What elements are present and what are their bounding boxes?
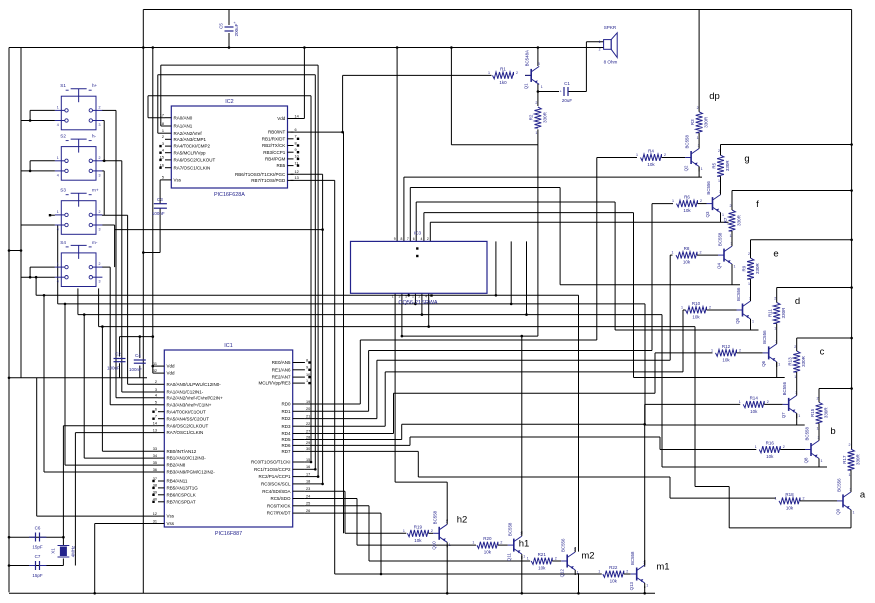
svg-text:2: 2 [427,237,429,241]
svg-text:b: b [830,426,835,437]
svg-text:4: 4 [162,149,164,153]
svg-text:15: 15 [306,458,310,462]
junction [521,335,524,338]
wire e segment line [615,329,758,331]
junction [29,119,32,122]
svg-text:RE0/AN5: RE0/AN5 [272,360,291,365]
svg-text:2: 2 [155,380,157,384]
svg-text:100uF: 100uF [107,366,120,371]
svg-text:RC1/T1OSI/CCP2: RC1/T1OSI/CCP2 [254,467,291,472]
svg-text:RC4/SDI/SDA: RC4/SDI/SDA [262,489,290,494]
wire RA7 drop [74,433,76,566]
svg-text:RB2/TX/CK: RB2/TX/CK [262,143,285,148]
wire S4p2 drop [109,267,111,405]
svg-text:RA5/MCLR/Vpp: RA5/MCLR/Vpp [174,150,207,155]
wire display anode riser [396,48,398,242]
wire f riser [559,188,561,285]
svg-text:15pF: 15pF [32,573,43,578]
wire RC2 ext [317,419,319,477]
junction [317,475,320,478]
wire d col drop [776,362,778,378]
svg-text:32: 32 [153,369,157,373]
wire RD3 h [385,371,683,373]
svg-text:2: 2 [767,400,769,404]
wire d base feed [655,352,713,354]
wire m1 base line [335,573,602,575]
wire IC2 Vdd lead [291,118,305,120]
wire C5 bottom lead [228,33,230,48]
wire b feed riser [659,437,661,450]
svg-text:BC556: BC556 [706,181,711,195]
svg-text:1: 1 [599,40,601,44]
svg-text:4: 4 [57,173,59,177]
wire RB0 lead [102,450,158,452]
svg-text:1k0: 1k0 [499,80,507,85]
svg-text:18: 18 [160,122,164,126]
wire a base feed [670,497,776,499]
svg-text:m+: m+ [92,188,99,193]
wire f col drop [731,264,733,285]
wire RA0(IC1) lead [128,383,158,385]
node a [860,490,866,501]
svg-text:S3: S3 [60,188,66,193]
wire RD7 riser [417,451,419,477]
svg-text:RD4: RD4 [281,431,290,436]
wire RC1 ext [314,411,316,469]
svg-text:R21: R21 [538,552,547,557]
transistor stage c (Q7 R13 R14) [739,338,806,418]
wire RD7 wire [305,450,418,452]
svg-text:3: 3 [99,173,101,177]
svg-text:1: 1 [577,571,579,575]
wire a hook [428,293,430,326]
svg-text:BC558: BC558 [718,232,723,246]
wire e riser [614,202,616,330]
svg-text:1: 1 [734,265,736,269]
svg-text:BC558: BC558 [805,427,810,441]
wire C1 to speaker [569,91,587,93]
svg-text:RB3/CCP1: RB3/CCP1 [263,150,286,155]
svg-text:RB7/T1OSI/PGD: RB7/T1OSI/PGD [251,178,286,183]
junction [20,249,23,252]
svg-text:10k: 10k [692,315,700,320]
wire b base feed [660,449,756,451]
svg-text:RA2/AN2/Vref-/CVref/C2IN+: RA2/AN2/Vref-/CVref/C2IN+ [167,395,224,400]
wire a jog down [728,487,730,528]
wire e hook h [416,201,615,203]
wire RD5 h [402,423,645,425]
wire C5 top lead [228,10,230,26]
junction [8,249,11,252]
svg-text:Vss: Vss [167,514,175,519]
svg-text:c: c [820,347,825,358]
svg-text:10k: 10k [766,454,774,459]
svg-text:20uF: 20uF [562,98,573,103]
wire S2 p2 wire [102,160,122,162]
svg-text:h2: h2 [457,515,468,526]
svg-text:5: 5 [405,295,407,299]
node b [830,426,835,437]
svg-text:19: 19 [306,400,310,404]
svg-text:8: 8 [401,237,403,241]
junction [510,303,513,306]
capacitor C1 20uF [559,81,572,103]
wire RC6 wire [305,505,369,507]
svg-text:BC558: BC558 [685,135,690,149]
wire a col drop [850,510,852,528]
wire RC4 wire [305,490,345,492]
capacitor C2 100uF [107,352,126,371]
junction [495,294,498,297]
wire RD3 riser [384,372,386,426]
wire c hook [414,293,416,304]
wire RA2(IC1) lead [116,397,158,399]
switch S4 m- [55,240,103,287]
svg-text:R1: R1 [500,66,506,71]
svg-text:RA6/OSC2/CLKOUT: RA6/OSC2/CLKOUT [174,158,216,163]
svg-text:1: 1 [392,295,394,299]
wire RD1 riser [368,351,370,412]
svg-text:RD7: RD7 [281,449,290,454]
svg-text:BC558: BC558 [630,551,635,565]
wire e tap [751,239,852,241]
junction [537,90,540,93]
wire h2 digit drop [394,293,396,482]
junction [850,387,853,390]
svg-text:RA2/AN2/Vref: RA2/AN2/Vref [174,131,203,136]
wire b col drop [818,459,820,468]
wire a feed riser [669,477,671,498]
wire S2 p1 [30,160,55,162]
svg-text:R22: R22 [609,565,618,570]
wire RB1 lead [84,457,158,459]
svg-text:Vss: Vss [174,178,182,183]
svg-text:4: 4 [57,228,59,232]
wire top rail left drop [142,10,144,594]
transistor Q1 BC548A [524,50,543,89]
wire d segment line [634,377,785,379]
svg-text:2: 2 [99,156,101,160]
wire dp segment line [404,176,702,178]
wire RD6 h [410,436,660,438]
svg-text:BC558: BC558 [433,510,438,524]
capacitor C5 200uF [219,20,240,36]
wire C2 bot lead [119,363,121,378]
node m2 [581,551,594,562]
wire m2 digit h [36,294,578,296]
wire m1 emitter [644,586,646,593]
wire RA2 lead [158,132,165,134]
svg-text:RB5/AN13/T1G: RB5/AN13/T1G [167,486,199,491]
svg-text:2: 2 [748,252,750,256]
svg-text:S2: S2 [60,134,66,139]
svg-text:C5: C5 [219,23,224,29]
wire RB1 stair [83,315,85,459]
svg-text:10k: 10k [786,506,794,511]
wire c feed riser [644,404,646,424]
svg-text:m1: m1 [656,562,669,573]
junction [341,131,344,134]
svg-text:RA0/AN0: RA0/AN0 [174,115,193,120]
wire RB3 lead [44,471,158,473]
wire h1 digit drop [401,293,403,336]
wire left jog [9,250,21,252]
wire RC4 stair [344,491,346,533]
svg-text:RC0/T1OSO/T1CKI: RC0/T1OSO/T1CKI [251,460,291,465]
svg-text:Q7: Q7 [781,412,786,418]
svg-text:20: 20 [306,407,310,411]
junction [314,468,317,471]
capacitor C3 100nF [152,197,167,216]
svg-text:1: 1 [535,131,537,135]
node m1 [656,562,669,573]
svg-text:S4: S4 [60,240,66,245]
junction [850,189,853,192]
wire fan t1 [495,241,497,295]
svg-text:RB1/RX/DT: RB1/RX/DT [262,136,286,141]
wire dp hook drop [403,177,405,241]
wire h1 digit h [402,335,538,337]
svg-text:2: 2 [99,105,101,109]
wire Vss1 riser [36,378,38,516]
wire S4 p2 wire [102,266,110,268]
svg-text:29: 29 [306,441,310,445]
svg-text:R3: R3 [690,119,695,125]
svg-text:Q10: Q10 [432,541,437,550]
junction [43,294,46,297]
wire h2 base line [345,532,406,534]
node h1 [519,539,530,550]
svg-text:330R: 330R [704,116,709,128]
capacitor C6 15pF [29,526,46,550]
svg-text:9: 9 [306,366,308,370]
wire RC7 wire [305,512,381,514]
wire m2 digit drop [408,293,410,295]
wire IC2 RB6 wire [291,173,323,175]
wire RC5 wire [305,498,357,500]
svg-text:21: 21 [306,414,310,418]
svg-text:3: 3 [99,280,101,284]
svg-text:12: 12 [153,512,157,516]
svg-text:1: 1 [162,129,164,133]
svg-text:4: 4 [421,237,423,241]
wire e feed drop [682,310,684,372]
wire m2 emitter [578,573,580,593]
svg-text:2: 2 [783,445,785,449]
svg-text:PIC16F628A: PIC16F628A [214,192,245,198]
wire g feed drop [651,204,653,351]
wire S2p3 stub [102,170,104,172]
capacitor C4 100nF [129,353,146,372]
wire C6 row [9,536,63,538]
svg-text:6: 6 [413,237,415,241]
svg-text:R20: R20 [483,536,492,541]
wire S2 U-hook [29,161,31,171]
junction [421,313,424,316]
node e [773,249,778,260]
wire h1 base line [357,544,476,546]
svg-text:1: 1 [748,282,750,286]
wire m1 col riser [644,424,646,567]
svg-text:Q1: Q1 [524,83,529,89]
junction [521,592,524,595]
wire d riser [633,213,635,378]
wire RD1 wire [305,410,369,412]
switch S1 h+ [55,83,103,130]
svg-text:R4: R4 [648,149,654,154]
wire RB0 stair [101,327,103,452]
junction [401,335,404,338]
transistor stage g (Q3 R5 R6) [672,145,730,218]
wire RB0 drop [343,132,345,533]
svg-text:31: 31 [153,519,157,523]
svg-text:3: 3 [162,142,164,146]
wire S4 p1 [30,266,55,268]
junction [83,313,86,316]
wire RD4 wire [305,433,394,435]
wire S4 under1 [77,288,79,314]
wire IC2 Vdd up [303,48,305,119]
svg-text:BC556: BC556 [837,478,842,492]
svg-text:Vdd: Vdd [277,116,286,121]
wire c base feed [645,403,741,405]
svg-text:1: 1 [646,584,648,588]
svg-text:RB4/PGM: RB4/PGM [265,157,286,162]
wire RD5 wire [305,439,402,441]
wire bottom rail [9,592,655,594]
wire b tap [819,388,852,390]
wire C4 top lead [139,337,141,358]
svg-text:1: 1 [697,136,699,140]
svg-text:1: 1 [821,459,823,463]
svg-text:11: 11 [153,362,157,366]
wire RD2 riser [376,360,378,418]
wire S2 p3 chain [103,171,105,215]
svg-text:2: 2 [664,153,666,157]
wire X1 top lead [62,537,64,545]
svg-text:RA1/AN1/C12IN1-: RA1/AN1/C12IN1- [167,390,204,395]
svg-text:RA6/OSC2/CLKOUT: RA6/OSC2/CLKOUT [167,423,209,428]
wire RA6 wire [63,425,158,427]
wire RC5 stair [356,499,358,546]
wire S1p3 stub [102,120,104,122]
svg-text:2: 2 [718,149,720,153]
svg-text:RB3/AN9/PGM/C12IN2-: RB3/AN9/PGM/C12IN2- [167,470,216,475]
node c [820,347,825,358]
svg-text:Vdd: Vdd [167,364,176,369]
wire RA2 riser [157,75,159,134]
svg-text:200uF: 200uF [234,23,239,36]
svg-text:BC556: BC556 [762,330,767,344]
wire S3 p3 chain [114,225,116,267]
svg-text:C3: C3 [157,197,163,202]
svg-text:1: 1 [527,557,529,561]
junction [303,46,306,49]
junction [537,46,540,49]
svg-text:R2: R2 [529,114,534,120]
wire a hook h [99,326,695,328]
wire IC2 RB0 wire [291,131,344,133]
wire left second vertical [20,48,22,378]
svg-text:Vss: Vss [167,521,175,526]
svg-text:Q5: Q5 [735,317,740,323]
junction [152,46,155,49]
svg-text:Q4: Q4 [717,263,722,269]
svg-text:Q2: Q2 [684,165,689,171]
svg-text:330R: 330R [823,407,828,419]
svg-text:Q11: Q11 [506,553,511,562]
wire h2 emitter [446,545,448,593]
svg-text:h1: h1 [519,539,530,550]
wire RA1(IC1) lead [122,391,158,393]
svg-text:4: 4 [57,280,59,284]
svg-text:2: 2 [162,135,164,139]
svg-text:1: 1 [711,348,713,352]
wire c col drop [796,413,798,425]
wire RB6 drop [322,174,324,229]
svg-text:1: 1 [598,570,600,574]
svg-text:RA1/AN1: RA1/AN1 [174,124,193,129]
svg-text:12: 12 [295,170,299,174]
wire C7 row [9,565,63,567]
wire f hook drop [409,188,411,242]
svg-text:6: 6 [155,408,157,412]
svg-text:RB1/AN10/C12IN3-: RB1/AN10/C12IN3- [167,456,207,461]
junction [850,143,853,146]
wire RA6 drop [62,426,64,538]
junction [310,461,313,464]
wire Q1 node [538,91,559,93]
wire RD3 wire [305,425,385,427]
svg-text:RC7/RX/DT: RC7/RX/DT [267,511,291,516]
svg-text:30: 30 [306,447,310,451]
wire a riser [694,327,696,487]
svg-text:1: 1 [672,251,674,255]
wire C4 bot lead [139,366,141,378]
svg-text:S1: S1 [60,83,66,88]
svg-text:10k: 10k [484,550,492,555]
svg-text:1: 1 [636,153,638,157]
svg-text:100nF: 100nF [129,367,142,372]
resistor R2 330R [529,101,548,135]
junction [321,228,324,231]
wire RD4 riser [393,393,395,433]
wire RD1 h [369,350,652,352]
svg-text:17: 17 [306,472,310,476]
svg-text:27: 27 [306,429,310,433]
svg-text:Vdd: Vdd [167,371,176,376]
svg-text:RE2/AN7: RE2/AN7 [272,375,291,380]
svg-text:R13: R13 [788,357,793,366]
wire C2C4 top [120,336,153,338]
wire speaker pin1 lead [586,41,603,43]
svg-text:1: 1 [541,85,543,89]
junction [142,251,145,254]
wire RB3 stair [43,295,45,472]
wire RD0 h [360,339,597,341]
svg-text:28: 28 [306,435,310,439]
junction [101,325,104,328]
node h2 [457,515,468,526]
wire h1 col riser [521,336,523,534]
svg-text:RD3: RD3 [281,424,290,429]
svg-text:10k: 10k [683,208,691,213]
node g [744,154,749,165]
wire RA1 lead [161,125,165,127]
svg-text:1: 1 [798,414,800,418]
svg-text:RE1/AN6: RE1/AN6 [272,367,291,372]
svg-text:RD2: RD2 [281,416,290,421]
